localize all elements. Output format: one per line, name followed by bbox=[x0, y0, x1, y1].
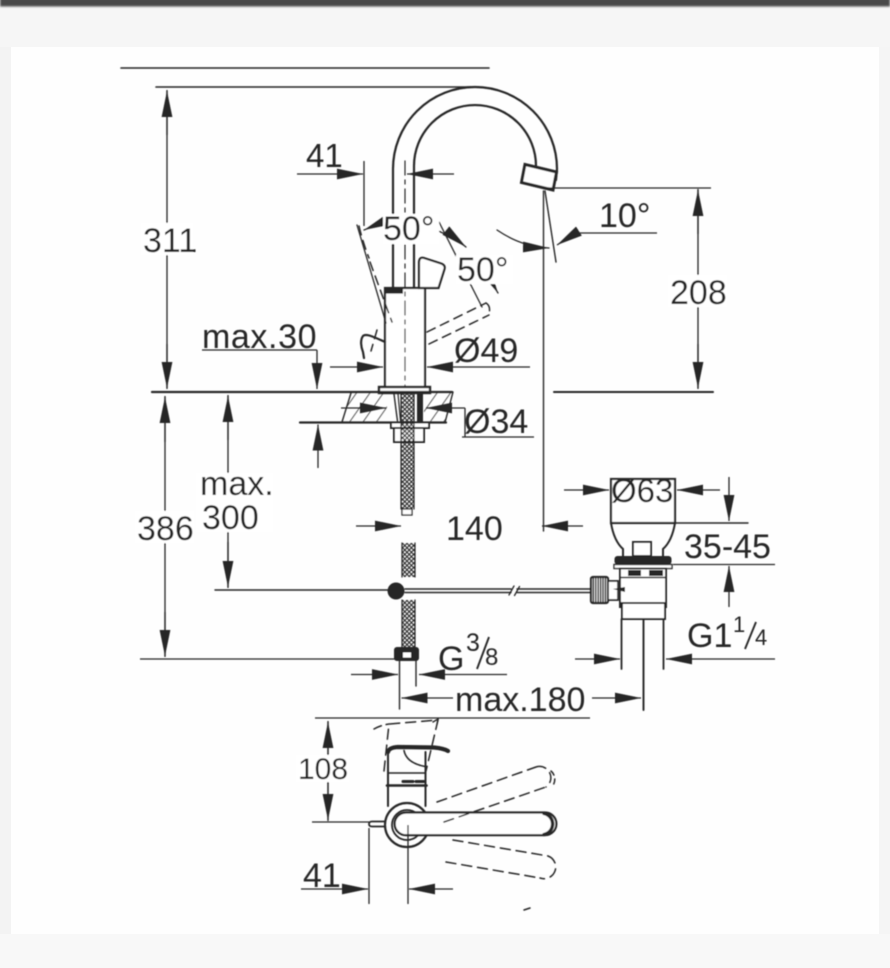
drain knob bbox=[633, 542, 651, 556]
svg-text:1: 1 bbox=[733, 612, 745, 637]
body centerline bbox=[404, 161, 406, 390]
dim max.180 bbox=[402, 697, 454, 699]
tv small mark bbox=[524, 908, 530, 910]
tv dashed spout up bbox=[437, 766, 551, 822]
hose in hole outline bbox=[394, 394, 398, 421]
drain knurled knob bbox=[591, 577, 608, 603]
dim dia49 bbox=[330, 366, 383, 368]
drain body bbox=[620, 569, 666, 608]
aerator bbox=[522, 165, 557, 191]
svg-text:208: 208 bbox=[670, 274, 727, 312]
label 386 bbox=[135, 511, 194, 543]
dim 140 bbox=[356, 525, 401, 527]
handle solid bbox=[419, 258, 445, 288]
drain black band bbox=[615, 556, 672, 565]
dim 41 top bbox=[363, 161, 365, 226]
hose end pipe bbox=[399, 661, 401, 709]
50deg arc arrow left bbox=[364, 222, 400, 230]
label max. bbox=[196, 473, 273, 532]
braided hose middle segment bbox=[402, 543, 415, 577]
tv outer circle bbox=[385, 803, 429, 847]
drain cup bottom line extension bbox=[611, 522, 748, 524]
tv body dashes bbox=[403, 780, 413, 783]
dim 35-45 bbox=[728, 477, 730, 521]
shank shadow bar bbox=[417, 394, 423, 422]
drain knob connector bbox=[608, 581, 618, 600]
50deg second arc arrow bbox=[472, 267, 498, 293]
50deg left leg line bbox=[357, 225, 386, 323]
drain body slots bbox=[628, 570, 641, 576]
dim 108 bbox=[315, 717, 590, 719]
counter bottom line bbox=[300, 421, 446, 423]
spout gooseneck outer bbox=[393, 87, 557, 288]
braided hose lower segment bbox=[402, 600, 415, 648]
svg-text:108: 108 bbox=[298, 753, 348, 786]
tv dashed handle left arc bbox=[374, 724, 389, 729]
hose ball joint bbox=[388, 583, 405, 600]
tv stub left bbox=[369, 822, 385, 827]
tv dashed spout down bbox=[446, 840, 556, 879]
water stream tilted 10 deg bbox=[545, 191, 556, 262]
svg-text:50°: 50° bbox=[457, 251, 508, 289]
drain taper bbox=[611, 523, 623, 556]
body top black band bbox=[386, 289, 403, 294]
faucet body bbox=[385, 288, 425, 387]
drain tailpipe bbox=[621, 619, 623, 669]
50deg right leg line bbox=[439, 222, 482, 307]
hose break stub bbox=[402, 509, 412, 515]
dim G38 bbox=[351, 674, 398, 676]
mounting nut bbox=[394, 428, 424, 442]
svg-text:Ø63: Ø63 bbox=[611, 472, 673, 509]
tv handle sides bbox=[388, 751, 426, 773]
reference line L1 (top) bbox=[121, 67, 489, 69]
svg-text:4: 4 bbox=[755, 625, 767, 650]
label 50 a bbox=[383, 214, 439, 244]
rod break marks bbox=[509, 586, 514, 595]
dim 386 bbox=[164, 396, 166, 657]
10deg arc arrow bbox=[497, 230, 549, 248]
dim 311 bbox=[166, 90, 168, 389]
svg-text:Ø49: Ø49 bbox=[454, 332, 518, 370]
drain lower nut bbox=[622, 603, 665, 619]
handle dashed lowered position bbox=[427, 303, 486, 332]
hose end fitting G3/8 bbox=[394, 647, 419, 661]
50deg arc arrow right bbox=[436, 230, 466, 247]
dim 10 leader bbox=[557, 233, 657, 245]
svg-text:8: 8 bbox=[485, 644, 498, 671]
spray lever on body left bbox=[361, 335, 385, 358]
drain cup bbox=[611, 479, 675, 523]
tv solid spout bbox=[395, 812, 557, 835]
dim dia63 bbox=[564, 489, 609, 491]
svg-text:max.180: max.180 bbox=[455, 681, 585, 719]
tv solid spout cap bbox=[544, 814, 553, 835]
dim G114 bbox=[575, 658, 620, 660]
svg-text:Ø34: Ø34 bbox=[464, 403, 528, 441]
label 208 bbox=[668, 275, 727, 307]
drain pointer bbox=[613, 587, 625, 592]
svg-text:311: 311 bbox=[143, 222, 197, 260]
dim dia34 bbox=[341, 407, 386, 409]
tv inner circle bbox=[392, 810, 422, 840]
top dark bar bbox=[0, 0, 890, 7]
svg-text:G1: G1 bbox=[687, 617, 732, 655]
svg-text:41: 41 bbox=[303, 857, 341, 895]
water stream vertical line bbox=[543, 191, 545, 531]
svg-text:140: 140 bbox=[446, 510, 503, 548]
base flange bbox=[379, 387, 430, 393]
svg-text:300: 300 bbox=[202, 499, 259, 537]
svg-text:386: 386 bbox=[137, 510, 194, 548]
tv handle cap bbox=[388, 747, 448, 752]
drain thin band bbox=[614, 565, 672, 569]
label 108 bbox=[296, 755, 349, 782]
svg-text:10°: 10° bbox=[599, 197, 650, 235]
handle dashed left position bbox=[370, 262, 392, 322]
tv body bbox=[388, 773, 426, 806]
spout gooseneck inner bbox=[414, 105, 536, 288]
svg-text:max.30: max.30 bbox=[202, 318, 317, 356]
dim max.300 bbox=[227, 395, 229, 588]
label 50 b bbox=[456, 255, 513, 284]
svg-text:max.: max. bbox=[200, 465, 274, 503]
pop-up rod horizontal bbox=[215, 589, 388, 591]
counter hatch right bbox=[424, 393, 453, 422]
counter hatch left bbox=[342, 393, 387, 422]
svg-text:35-45: 35-45 bbox=[684, 528, 771, 566]
reference line L2 (spout top level) bbox=[156, 86, 477, 88]
svg-text:50°: 50° bbox=[383, 210, 434, 248]
label 311 bbox=[141, 223, 193, 255]
washer under counter bbox=[391, 423, 429, 429]
tv handle scoop bbox=[404, 751, 425, 767]
svg-text:G: G bbox=[438, 640, 464, 678]
svg-text:3: 3 bbox=[466, 629, 480, 657]
dim 41 bottom bbox=[368, 828, 370, 904]
dim max.30 bbox=[202, 349, 317, 351]
dim 208 bbox=[543, 187, 711, 189]
counter top line bbox=[152, 391, 452, 393]
svg-text:41: 41 bbox=[306, 137, 343, 174]
tv dashed handle bbox=[384, 720, 438, 771]
braided hose upper segment bbox=[401, 394, 414, 509]
